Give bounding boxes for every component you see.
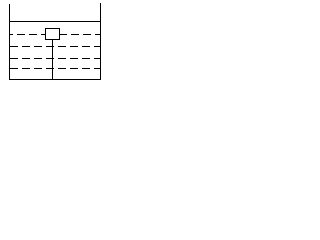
- tank left wall: [9, 4, 10, 80]
- tank bottom line: [9, 79, 101, 80]
- dashed liquid level line 3 (y=58): [10, 58, 100, 59]
- sensor probe rod (center vertical line): [52, 40, 53, 80]
- tank right wall: [100, 3, 101, 80]
- dashed liquid level line 4 (y=68): [10, 68, 100, 69]
- level sensor box (square): [45, 28, 60, 40]
- liquid surface line (top solid line): [9, 21, 101, 22]
- dashed liquid level line 2 (y=46): [10, 46, 100, 47]
- dashed liquid level line 1 (y=34, through sensor): [9, 34, 100, 35]
- background: [0, 0, 107, 86]
